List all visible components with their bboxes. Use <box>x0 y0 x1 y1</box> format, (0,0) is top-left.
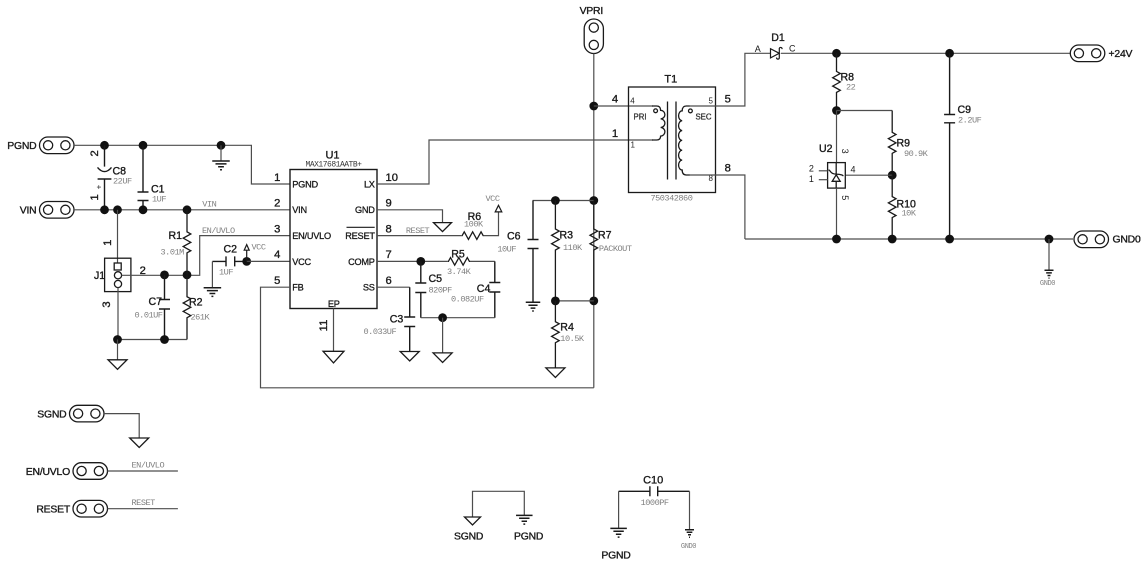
svg-text:SGND: SGND <box>454 532 483 543</box>
ground triangle SGND port <box>130 438 149 448</box>
svg-text:R3: R3 <box>560 229 574 241</box>
wire U2 cathode from R8 node <box>836 111 838 163</box>
svg-text:+: + <box>94 184 103 189</box>
capacitor C5 <box>415 261 426 317</box>
wire C5 bottom to C4 bottom <box>421 317 495 319</box>
resistor R5 <box>448 258 470 266</box>
wire bottom node J1/C7/R2 <box>118 339 188 341</box>
svg-text:R4: R4 <box>560 322 574 334</box>
ground triangle below EP <box>323 351 344 363</box>
svg-text:1: 1 <box>274 172 280 184</box>
T1 secondary winding <box>679 106 690 175</box>
junction bottom at C7 <box>160 335 169 344</box>
svg-text:C4: C4 <box>477 283 491 295</box>
svg-text:PACKOUT: PACKOUT <box>599 244 632 254</box>
svg-text:4: 4 <box>851 165 856 175</box>
svg-text:6: 6 <box>386 275 392 287</box>
capacitor C2 <box>212 256 246 266</box>
VCC arrow at C2 <box>244 245 249 262</box>
VCC arrow at R6 <box>495 205 502 212</box>
wire T1 pin 5 to diode <box>689 53 771 106</box>
wire VIN to J1 pin 1 <box>117 210 119 263</box>
junction VPRI at R7 top <box>589 196 598 205</box>
diode D1 (schottky) <box>771 49 780 58</box>
ground earth on PGND line <box>220 145 222 161</box>
resistor R4 <box>552 301 560 368</box>
svg-text:5: 5 <box>274 275 280 287</box>
svg-text:EN/UVLO: EN/UVLO <box>202 226 235 236</box>
svg-text:PGND: PGND <box>7 141 36 152</box>
junction GND0 at R10 <box>888 235 897 244</box>
svg-text:1: 1 <box>612 128 618 140</box>
ground triangle below C3 <box>400 352 419 362</box>
junction pin2 line at C7 <box>160 271 169 280</box>
wire R6 to VCC arrow <box>484 212 499 236</box>
capacitor C8 (polarized) <box>98 145 112 210</box>
svg-text:5: 5 <box>709 96 714 105</box>
shunt regulator U2 box <box>828 163 846 189</box>
svg-text:3: 3 <box>274 223 280 235</box>
wire LX pin 10 to T1 pin 1 <box>377 140 653 184</box>
port VPRI <box>584 19 603 54</box>
ground triangle SGND tie <box>465 517 481 525</box>
T1 core <box>668 102 677 180</box>
svg-text:2: 2 <box>274 198 280 210</box>
capacitor C7 <box>159 275 170 340</box>
svg-text:8: 8 <box>725 163 731 175</box>
svg-text:8: 8 <box>386 223 392 235</box>
U1 pin 11 EP stub <box>333 309 335 352</box>
svg-text:COMP: COMP <box>348 257 375 267</box>
ground earth GND0 <box>1045 270 1054 278</box>
svg-text:4: 4 <box>630 96 635 105</box>
svg-text:22: 22 <box>846 83 856 93</box>
resistor R1 <box>183 210 191 275</box>
svg-text:R7: R7 <box>598 229 612 241</box>
svg-text:EN/UVLO: EN/UVLO <box>292 231 331 241</box>
svg-text:1: 1 <box>89 194 101 200</box>
svg-text:0.082UF: 0.082UF <box>451 295 484 305</box>
svg-text:22UF: 22UF <box>113 177 132 187</box>
svg-text:J1: J1 <box>94 270 105 282</box>
junction VIN at C8 <box>100 205 109 214</box>
svg-text:SEC: SEC <box>695 113 711 122</box>
svg-text:PGND: PGND <box>601 551 630 562</box>
op-amp U1 body <box>290 170 377 309</box>
wire RESET port stub <box>108 508 178 510</box>
svg-text:VCC: VCC <box>486 194 500 204</box>
wire GND0 to earth <box>1048 239 1050 270</box>
svg-text:C5: C5 <box>429 273 443 285</box>
wire SGND-PGND tie <box>473 491 525 517</box>
wire T1 pin 8 to GND0 <box>689 175 745 239</box>
svg-text:11: 11 <box>318 320 330 332</box>
svg-text:+24V: +24V <box>1109 49 1133 60</box>
svg-text:10: 10 <box>386 172 398 184</box>
port GND0 <box>1074 231 1109 248</box>
resistor R10 <box>888 175 896 239</box>
wire C2 left to ground <box>211 261 213 287</box>
svg-text:U2: U2 <box>819 143 833 155</box>
svg-text:0.01UF: 0.01UF <box>135 310 163 320</box>
resistor R7 <box>590 201 598 301</box>
svg-text:R5: R5 <box>451 248 465 260</box>
svg-text:T1: T1 <box>664 74 677 86</box>
svg-text:10UF: 10UF <box>497 245 516 255</box>
wire RESET pin 8 to R6 <box>377 235 462 237</box>
wire EN/UVLO to pin 3 <box>200 236 290 275</box>
svg-text:1: 1 <box>631 141 636 150</box>
svg-text:4: 4 <box>274 249 280 261</box>
svg-text:2: 2 <box>89 150 101 156</box>
resistor R3 <box>552 201 560 301</box>
wire PGND net to pin 1 <box>74 145 290 184</box>
wire VPRI vertical bus <box>593 54 595 388</box>
ground earth GND0 at C10 <box>685 530 694 538</box>
svg-text:9: 9 <box>386 198 392 210</box>
svg-text:EN/UVLO: EN/UVLO <box>132 460 165 470</box>
J1 pin 2 circle pad <box>114 272 121 279</box>
junction GND0 at C9 <box>945 235 954 244</box>
junction +24V at R8 <box>832 49 841 58</box>
svg-text:VCC: VCC <box>252 242 266 252</box>
svg-text:1UF: 1UF <box>219 268 233 278</box>
svg-text:VIN: VIN <box>20 206 37 217</box>
svg-text:EP: EP <box>328 299 340 309</box>
U2 pin 1 stub <box>819 179 828 181</box>
ground triangle below R4 <box>546 368 565 378</box>
svg-text:PRI: PRI <box>634 113 647 122</box>
junction bottom node at R3/R4 <box>551 297 560 306</box>
svg-text:RESET: RESET <box>406 226 430 236</box>
svg-text:C6: C6 <box>507 231 521 243</box>
svg-text:1: 1 <box>809 174 814 184</box>
wire to ground below J1 <box>117 340 119 360</box>
svg-text:820PF: 820PF <box>429 285 453 295</box>
capacitor C1 <box>138 145 149 210</box>
svg-text:GND0: GND0 <box>1113 235 1141 246</box>
junction GND0 at U2 <box>832 235 841 244</box>
wire GND pin 9 to ground <box>377 210 443 223</box>
wire SGND to ground <box>104 414 139 438</box>
svg-text:RESET: RESET <box>132 498 156 508</box>
svg-text:7: 7 <box>386 249 392 261</box>
svg-text:FB: FB <box>292 283 303 293</box>
wire C10 left to PGND <box>618 491 620 528</box>
port EN/UVLO <box>73 463 108 480</box>
resistor R2 <box>183 275 191 340</box>
U2 pin 2 stub <box>819 170 828 172</box>
wire COMP pin 7 to R5 <box>377 260 448 262</box>
T1 primary winding <box>652 106 665 140</box>
RESET pin overline <box>347 226 375 228</box>
junction COMP at C5 <box>416 257 425 266</box>
junction top node at R3 <box>551 196 560 205</box>
svg-text:RESET: RESET <box>345 231 375 241</box>
ground earth PGND at C10 <box>610 528 627 537</box>
svg-text:GND0: GND0 <box>681 543 696 551</box>
svg-text:3.01M: 3.01M <box>161 248 185 258</box>
svg-text:3.74K: 3.74K <box>447 267 472 277</box>
junction on PGND line at C1 <box>139 141 148 150</box>
svg-text:EN/UVLO: EN/UVLO <box>26 467 70 478</box>
junction R9/R10/U2 pin4 <box>888 171 897 180</box>
ground triangle below C5/C4 <box>433 353 452 363</box>
junction VPRI at T1 pin 4 <box>589 102 598 111</box>
capacitor C6 <box>528 201 539 303</box>
svg-text:D1: D1 <box>771 32 785 44</box>
svg-text:C7: C7 <box>149 296 163 308</box>
svg-text:VCC: VCC <box>292 257 311 267</box>
wire C10 right to GND0 <box>689 491 691 530</box>
junction on PGND line at ground <box>217 141 226 150</box>
svg-text:VPRI: VPRI <box>580 6 603 17</box>
svg-text:MAX17681AATB+: MAX17681AATB+ <box>306 161 363 170</box>
svg-text:SS: SS <box>363 283 375 293</box>
svg-text:RESET: RESET <box>36 505 70 516</box>
resistor R8 <box>833 53 841 110</box>
svg-text:GND: GND <box>355 205 375 215</box>
junction pin2 line at R1/R2 <box>183 271 192 280</box>
svg-text:PGND: PGND <box>292 179 318 189</box>
resistor R9 <box>888 111 896 176</box>
ground earth below C2 <box>204 288 222 297</box>
wire U2 pin 4 to divider <box>845 174 892 176</box>
junction +24V at C9 <box>945 49 954 58</box>
wire U2 anode to GND0 <box>836 188 838 239</box>
svg-text:750342860: 750342860 <box>650 193 692 203</box>
T1 primary phase dot <box>654 109 658 113</box>
svg-text:90.9K: 90.9K <box>904 149 929 159</box>
svg-text:GND0: GND0 <box>1040 280 1055 288</box>
wire J1 pin 2 to EN/UVLO node <box>122 274 200 277</box>
port +24V <box>1070 45 1105 62</box>
svg-text:C9: C9 <box>958 104 972 116</box>
junction R8 bottom <box>832 106 841 115</box>
svg-text:2: 2 <box>809 163 814 173</box>
junction VIN at R1 <box>183 205 192 214</box>
svg-text:R9: R9 <box>897 138 911 150</box>
wire +24V rail <box>781 52 1070 54</box>
svg-text:R2: R2 <box>189 297 203 309</box>
ground triangle at GND pin <box>434 223 452 232</box>
svg-text:5: 5 <box>725 94 731 106</box>
svg-text:LX: LX <box>364 179 375 189</box>
svg-text:3: 3 <box>840 149 850 154</box>
svg-text:10.5K: 10.5K <box>560 334 585 344</box>
svg-text:1: 1 <box>102 240 114 246</box>
svg-text:R1: R1 <box>169 230 183 242</box>
svg-text:100K: 100K <box>464 220 484 230</box>
wire FB pin 5 feedback loop <box>261 287 594 388</box>
svg-text:SGND: SGND <box>37 409 66 420</box>
junction GND0 at ground <box>1045 235 1054 244</box>
svg-text:3: 3 <box>101 301 113 307</box>
port RESET <box>73 500 108 517</box>
port PGND <box>40 137 75 154</box>
capacitor C3 <box>404 287 415 351</box>
svg-text:110K: 110K <box>563 243 583 253</box>
transformer T1 box <box>629 87 716 193</box>
wire R5 to C4 <box>470 260 495 262</box>
wire VPRI to T1 pin 4 <box>594 105 653 107</box>
svg-text:261K: 261K <box>191 313 211 323</box>
wire GND0 rail <box>745 238 1073 240</box>
wire VCC node to pin 4 <box>247 260 290 262</box>
resistor R6 <box>462 232 484 240</box>
svg-text:4: 4 <box>612 94 618 106</box>
junction bottom at ground tap <box>438 313 447 322</box>
wire J1 pin 3 down <box>117 288 120 340</box>
svg-text:C3: C3 <box>390 314 404 326</box>
port VIN <box>40 202 75 219</box>
wire C6/R3 top node <box>533 200 594 202</box>
wire SS pin 6 to C3 <box>377 286 410 288</box>
svg-text:0.033UF: 0.033UF <box>364 327 397 337</box>
capacitor C9 <box>944 53 955 239</box>
svg-text:5: 5 <box>840 195 850 200</box>
junction VCC at pin 4 <box>242 257 251 266</box>
junction VIN at C1 <box>139 205 148 214</box>
svg-text:C10: C10 <box>643 474 663 486</box>
junction VIN at J1 <box>113 205 122 214</box>
wire R8 bottom to R9 top <box>837 110 893 112</box>
svg-text:2.2UF: 2.2UF <box>958 116 982 126</box>
junction bottom at J1 <box>113 335 122 344</box>
svg-text:1UF: 1UF <box>152 195 166 205</box>
port SGND <box>70 405 105 422</box>
wire VIN net <box>74 209 290 211</box>
junction on PGND line at C8 <box>100 141 109 150</box>
svg-text:1000PF: 1000PF <box>641 498 669 508</box>
wire R3/R7 bottom node <box>555 300 593 302</box>
J1 pin 3 circle pad <box>114 280 121 287</box>
capacitor C4 <box>489 261 500 317</box>
ground earth PGND tie <box>516 515 533 524</box>
svg-text:A: A <box>755 44 761 54</box>
T1 secondary phase dot <box>689 109 693 113</box>
svg-text:C: C <box>789 44 796 54</box>
svg-text:VIN: VIN <box>202 200 216 210</box>
ground earth below C6 <box>526 302 541 311</box>
svg-text:VIN: VIN <box>292 205 307 215</box>
svg-text:PGND: PGND <box>514 532 543 543</box>
J1 pin 1 square pad <box>114 263 121 270</box>
connector J1 box <box>105 258 131 291</box>
ground SGND triangle below J1 <box>108 360 127 370</box>
wire EN/UVLO port stub <box>108 470 178 472</box>
capacitor C10 <box>619 486 690 496</box>
junction VPRI at R7 bottom <box>589 297 598 306</box>
wire down to ground from C5/C4 <box>442 318 444 353</box>
svg-text:C2: C2 <box>224 243 238 255</box>
U2 internal zener symbol <box>829 163 844 189</box>
svg-text:10K: 10K <box>902 209 917 219</box>
